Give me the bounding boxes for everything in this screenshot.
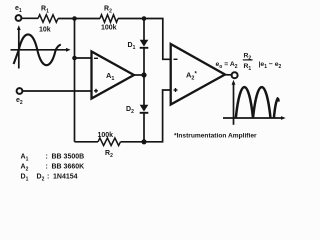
input terminal e1 — [15, 5, 22, 21]
svg-text:*Instrumentation Amplifier: *Instrumentation Amplifier — [174, 133, 257, 140]
wire node B to A2 inverting input — [144, 19, 171, 60]
node D — [141, 139, 146, 144]
wire D1 to node C — [143, 48, 145, 75]
wire node A to R2 — [75, 18, 101, 20]
op-amp A1 — [92, 52, 135, 99]
svg-text:100k: 100k — [101, 25, 117, 32]
wire node B down to diode D1 — [143, 19, 145, 41]
output waveform (rectified sine) — [236, 87, 279, 118]
wire A2 output — [225, 74, 232, 76]
resistor R1 — [38, 6, 58, 34]
node B — [142, 16, 147, 21]
wire R1 to node A — [58, 18, 75, 20]
output terminal — [232, 72, 238, 78]
wire bottom rail left — [75, 141, 99, 143]
sine wave — [14, 34, 61, 65]
node A — [72, 16, 77, 21]
wire e2 to A1 non-inverting input — [22, 90, 91, 92]
diode D2 — [126, 105, 148, 115]
node C — [141, 72, 146, 77]
svg-text:100k: 100k — [98, 132, 114, 139]
svg-text:10k: 10k — [39, 27, 51, 34]
diode D1 — [128, 40, 149, 51]
wire node C down to diode D2 — [143, 75, 145, 105]
wire D2 to node D — [143, 113, 145, 142]
resistor R2 (top) — [100, 6, 118, 32]
wire bottom rail right — [121, 141, 145, 143]
wire e1 to R1 — [21, 17, 38, 19]
input terminal e2 — [16, 88, 23, 106]
wire node A down to bottom rail — [74, 19, 76, 142]
source waveform axes — [11, 25, 71, 68]
resistor R2 (bottom) — [98, 132, 121, 159]
output waveform axes — [223, 80, 286, 125]
wire A1 output to node C — [134, 74, 144, 76]
wire to A1 inverting input — [75, 57, 92, 59]
node at A1 inverting input — [72, 56, 77, 61]
wire node D to A2 non-inverting input — [144, 90, 171, 142]
wire R2 to node B — [118, 18, 144, 20]
output formula — [216, 53, 282, 73]
op-amp A2 — [171, 44, 225, 105]
